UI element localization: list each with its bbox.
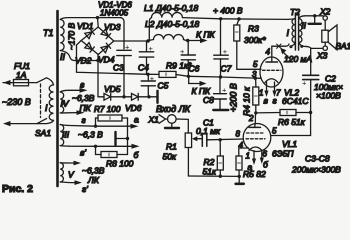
node: C5 bottom junction <box>147 95 150 98</box>
svg-text:8: 8 <box>236 130 241 139</box>
speaker BA1 <box>322 25 337 50</box>
node: NFB junction <box>309 111 312 114</box>
diode VD5 <box>98 93 124 100</box>
svg-text:~6,3 В: ~6,3 В <box>78 130 103 140</box>
T1 winding I (primary) <box>49 85 53 120</box>
wire: winding II top to bridge <box>60 18 121 20</box>
svg-text:~6,3В: ~6,3В <box>72 93 95 103</box>
svg-text:6: 6 <box>263 150 268 159</box>
svg-text:L2 Д40-5-0,18: L2 Д40-5-0,18 <box>145 19 199 29</box>
svg-text:5: 5 <box>253 60 258 69</box>
wire: to winding I top <box>47 78 54 85</box>
node: bottom vertex junction <box>96 59 99 62</box>
svg-text:200мк×300В: 200мк×300В <box>291 165 341 175</box>
svg-text:г': г' <box>82 184 88 194</box>
resistor R5 <box>236 156 242 176</box>
svg-text:+: + <box>125 43 130 52</box>
bridge VD1-VD4 frame <box>81 27 114 55</box>
svg-text:ЛК: ЛК <box>87 175 100 185</box>
svg-text:+200 В: +200 В <box>229 83 239 112</box>
node: R9 right / C6 bottom <box>187 75 190 78</box>
diode VD4 <box>101 43 111 53</box>
120mA arrow <box>280 48 290 60</box>
switch SA1 lower arm <box>37 119 47 124</box>
svg-text:7: 7 <box>276 89 281 98</box>
resistor R2 <box>217 140 223 176</box>
measuring point x <box>277 44 281 48</box>
svg-text:+: + <box>222 86 227 95</box>
connector X3 <box>323 43 327 51</box>
capacitor C5 <box>141 74 155 97</box>
node: C7 bottom / C8 top <box>219 75 222 78</box>
svg-text:1А: 1А <box>16 70 27 80</box>
chassis symbol bottom <box>236 176 244 183</box>
svg-text:~170 В: ~170 В <box>67 22 77 50</box>
chassis bar at T2 secondary <box>309 16 321 24</box>
svg-text:ВА1: ВА1 <box>336 41 350 51</box>
svg-text:T1: T1 <box>43 28 54 38</box>
node: C7 top <box>219 17 222 20</box>
wire: mains top lead with arrow <box>3 80 37 85</box>
svg-text:С6: С6 <box>189 64 200 74</box>
T1 winding V <box>60 163 63 182</box>
node: VD5/VD6 junction <box>122 95 125 98</box>
svg-text:120 мА: 120 мА <box>284 54 312 64</box>
resistor R4 <box>253 78 259 113</box>
svg-text:300к*: 300к* <box>244 35 266 45</box>
svg-text:2: 2 <box>248 114 254 123</box>
ground rail bottom <box>188 175 239 177</box>
svg-text:4: 4 <box>266 48 271 57</box>
T2 winding I <box>288 19 295 47</box>
svg-text:Вход ЛК: Вход ЛК <box>156 104 191 114</box>
svg-text:5: 5 <box>272 127 277 136</box>
svg-text:R1: R1 <box>166 142 177 152</box>
tube VL2 <box>260 57 283 97</box>
diode VD6 <box>124 93 149 100</box>
svg-text:С8: С8 <box>203 95 214 105</box>
+400V rail <box>221 18 288 21</box>
svg-text:а: а <box>134 115 139 125</box>
svg-text:R6 51к: R6 51к <box>278 117 306 127</box>
diode VD3 <box>101 29 111 39</box>
resistor R8 <box>96 139 128 158</box>
node: R4 top <box>254 77 257 80</box>
switch SA1 upper arm <box>37 78 47 83</box>
svg-text:+: + <box>149 44 154 53</box>
node: AC top junction <box>96 16 99 19</box>
svg-text:Рис. 2: Рис. 2 <box>2 183 33 195</box>
capacitor C2 <box>302 48 319 112</box>
svg-text:+: + <box>150 74 155 83</box>
SA1 dashed link <box>40 84 42 118</box>
node: L2 out / C6 top <box>186 39 189 42</box>
svg-text:в: в <box>264 96 269 106</box>
wire: DC+ from right vertex <box>114 40 148 42</box>
node: R7 tap <box>94 125 97 128</box>
node: DC+ junction <box>146 39 149 42</box>
wire: left vertex to common rail <box>77 41 149 75</box>
T1 winding III <box>60 125 64 146</box>
winding IV top arrow в <box>60 88 87 93</box>
node: R8 tap <box>94 145 97 148</box>
wire: К ПК arrow (lower) <box>189 76 207 86</box>
tube VL1 <box>243 124 271 166</box>
svg-text:С4: С4 <box>138 63 149 73</box>
wire: X3 to feedback <box>311 47 323 49</box>
node: R2 bottom <box>219 175 222 178</box>
wire: +200V to pin 3 <box>221 77 262 78</box>
input connector X1 <box>159 115 179 128</box>
svg-text:+: + <box>180 47 185 56</box>
resistor R3 <box>234 19 240 69</box>
wire: to VL1 anode <box>254 113 256 124</box>
fuse FU1 <box>14 61 31 86</box>
svg-text:6С41С: 6С41С <box>282 96 309 106</box>
wire: X2 to speaker <box>324 20 326 30</box>
wire: winding I bottom to switch <box>37 120 54 123</box>
wire: down to bridge top vertex <box>97 18 100 27</box>
potentiometer R1 <box>185 133 202 176</box>
svg-text:IV: IV <box>61 99 70 109</box>
svg-text:К ПК: К ПК <box>196 30 216 40</box>
svg-text:+ 400 В: + 400 В <box>213 6 243 16</box>
capacitor C3 <box>117 43 131 97</box>
wire: AC top to C3 (doubler feed) <box>121 18 124 49</box>
svg-text:1N4005: 1N4005 <box>100 9 129 18</box>
wire: mains bottom lead with arrow <box>3 121 37 126</box>
svg-text:~230 В: ~230 В <box>2 97 31 107</box>
svg-text:VD5: VD5 <box>104 84 121 94</box>
svg-text:С3: С3 <box>113 63 124 73</box>
svg-text:Т2: Т2 <box>290 7 300 17</box>
svg-text:×100В: ×100В <box>316 91 341 101</box>
wire б: winding III bottom <box>60 144 139 149</box>
svg-text:III: III <box>62 130 70 140</box>
wire: winding II bottom lead <box>60 51 98 61</box>
capacitor C8 <box>213 77 228 110</box>
resistor R9 <box>148 71 188 77</box>
svg-text:R7 100: R7 100 <box>94 105 121 114</box>
wire: К ПК arrow (top) <box>188 38 208 43</box>
svg-text:С3-С8: С3-С8 <box>305 154 330 164</box>
svg-text:С7: С7 <box>221 64 232 74</box>
svg-text:1: 1 <box>246 152 250 161</box>
resistor R7 <box>96 115 128 139</box>
node: common rail / C4 C5 R9 <box>146 73 149 76</box>
wire: VL1 cathode pin4 to R5 <box>239 148 249 156</box>
wire: NFB down to pin 5 <box>271 113 311 136</box>
capacitor C1 <box>202 134 208 147</box>
wire: VL2 anode to T2 <box>272 44 289 57</box>
svg-text:+: + <box>302 79 307 88</box>
svg-text:0,1 мк: 0,1 мк <box>196 126 221 136</box>
inductor L2 <box>148 35 188 42</box>
svg-text:VD3: VD3 <box>104 22 121 32</box>
diode VD1 <box>85 29 95 39</box>
svg-text:R4 10 к: R4 10 к <box>242 86 252 116</box>
svg-text:R5 82: R5 82 <box>243 169 266 179</box>
svg-text:+: + <box>223 47 228 56</box>
capacitor C4 <box>139 41 153 74</box>
capacitor C6 <box>180 41 195 77</box>
svg-text:VD1: VD1 <box>77 21 94 31</box>
T2 winding II <box>299 16 323 49</box>
svg-text:50к: 50к <box>163 152 177 162</box>
wire: +200V run to VL2 pin3 <box>188 75 220 78</box>
diode VD2 <box>85 43 95 53</box>
svg-text:С5: С5 <box>158 81 169 91</box>
svg-text:R3: R3 <box>248 24 259 34</box>
node: R2 top <box>219 138 222 141</box>
connector X2 <box>323 16 327 20</box>
wire: bottom vertex down to VD5 <box>97 55 99 97</box>
svg-text:X1: X1 <box>148 115 160 125</box>
capacitor C7 <box>214 20 228 78</box>
svg-text:R2: R2 <box>204 157 215 167</box>
winding V top arrow в' <box>60 161 81 166</box>
svg-text:в': в' <box>80 148 86 158</box>
wire: VL2 grid pin 5 <box>237 68 261 70</box>
svg-text:Х2: Х2 <box>319 7 331 17</box>
polarity dots <box>290 45 293 48</box>
node: secondary ground tap <box>313 14 316 17</box>
transformer T1 core <box>56 11 59 186</box>
svg-text:L1 Д40-5-0,18: L1 Д40-5-0,18 <box>144 3 198 13</box>
node: VL1 anode / R6 <box>254 111 257 114</box>
svg-text:г: г <box>82 115 86 125</box>
chassis bar after VD6 <box>149 91 158 103</box>
T1 winding II <box>60 20 64 51</box>
wire: grid VL1 from C1 <box>208 138 244 141</box>
transformer T2 core <box>295 13 298 50</box>
node: R5 bottom <box>238 175 241 178</box>
wire: X1 to R1 <box>176 119 188 133</box>
winding IV bottom arrow г <box>60 110 84 115</box>
svg-text:R8 100: R8 100 <box>106 159 134 169</box>
svg-text:г: г <box>273 96 277 106</box>
resistor R6 <box>256 110 311 116</box>
inductor L1 <box>149 12 220 41</box>
svg-text:SA1: SA1 <box>35 128 51 138</box>
T1 winding IV <box>60 92 64 113</box>
wire а: winding III top <box>60 124 138 129</box>
node: chassis mid <box>126 137 129 140</box>
svg-text:Х3: Х3 <box>316 51 328 61</box>
svg-text:VL1: VL1 <box>282 139 297 149</box>
svg-text:ПК: ПК <box>80 103 92 113</box>
winding V bottom arrow г' <box>60 180 82 185</box>
chassis bar mid <box>116 132 128 145</box>
svg-text:в: в <box>80 80 85 90</box>
svg-text:51к: 51к <box>203 167 217 177</box>
node: R3 top <box>237 17 240 20</box>
svg-text:II: II <box>60 52 66 62</box>
svg-text:VD6: VD6 <box>125 103 142 113</box>
svg-text:~6,3В: ~6,3В <box>82 166 105 176</box>
svg-text:6Э5П: 6Э5П <box>272 149 294 159</box>
svg-text:II: II <box>302 22 307 31</box>
